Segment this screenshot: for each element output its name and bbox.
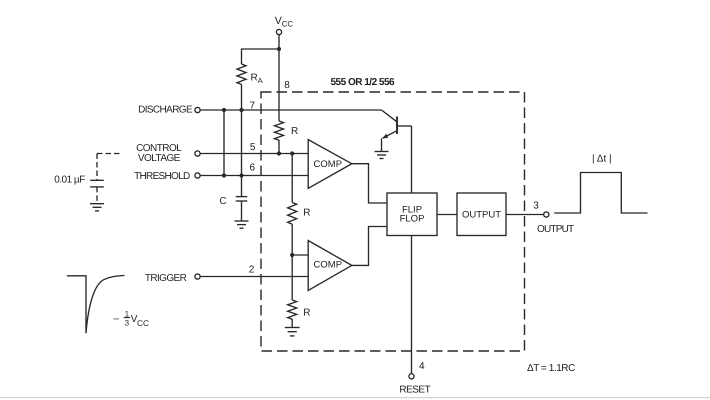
- wire R1 bottom to control voltage node: [278, 140, 280, 154]
- output waveform: [554, 173, 647, 214]
- wire Vcc down: [278, 35, 280, 49]
- capacitor 0.01uF plates: [90, 180, 104, 187]
- comparator COMP2: [308, 241, 352, 291]
- wire output to pin3: [506, 214, 544, 216]
- svg-text:555 OR 1/2 556: 555 OR 1/2 556: [331, 77, 396, 88]
- svg-text:0.01 µF: 0.01 µF: [54, 174, 85, 185]
- svg-text:1: 1: [125, 309, 130, 318]
- svg-text:7: 7: [250, 101, 256, 112]
- node Vcc junction: [277, 47, 281, 51]
- svg-text:8: 8: [284, 80, 290, 91]
- fraction bar of 1/3: [124, 317, 130, 319]
- wire flip flop down to reset pin4: [411, 236, 413, 374]
- wire control voltage line pin5: [200, 153, 308, 155]
- svg-text:RESET: RESET: [399, 384, 430, 395]
- node junction threshold x241.5: [239, 173, 243, 177]
- svg-text:V: V: [275, 15, 282, 27]
- svg-text:DISCHARGE: DISCHARGE: [138, 104, 193, 115]
- wire trigger line pin2: [200, 276, 308, 278]
- wire R3 bottom to ground: [291, 319, 293, 328]
- ground under R3: [285, 328, 300, 336]
- wire RA bottom to discharge line: [241, 84, 243, 110]
- wire vertical x224 discharge to threshold: [223, 110, 225, 176]
- wire R2 bottom to comp2 node: [291, 224, 293, 255]
- wire Vcc to RA top: [242, 49, 280, 64]
- svg-text:OUTPUT: OUTPUT: [462, 210, 501, 221]
- node junction comp2 upper input: [290, 253, 294, 257]
- ground under 0.01uF: [90, 204, 104, 211]
- wire Q1 collector down to flip flop: [411, 126, 413, 193]
- svg-text:| Δt |: | Δt |: [592, 153, 612, 164]
- svg-text:CC: CC: [137, 318, 149, 328]
- capacitor C: [236, 197, 248, 221]
- svg-text:3: 3: [125, 319, 130, 328]
- svg-text:4: 4: [419, 361, 425, 372]
- label RA: [251, 73, 263, 85]
- svg-text:FLOP: FLOP: [400, 213, 425, 224]
- wire R chain x292 cv node down to R2: [291, 154, 293, 203]
- wire comp2 node down to R3: [291, 255, 293, 300]
- flip flop box U2: [387, 193, 437, 236]
- ground under C: [235, 221, 249, 228]
- ground under Q1: [375, 152, 389, 159]
- wire Vcc vertical into box to R1 top: [278, 49, 280, 121]
- node output terminal: [544, 212, 549, 217]
- svg-text:ΔT = 1.1RC: ΔT = 1.1RC: [527, 363, 575, 374]
- node junction discharge x224: [222, 108, 226, 112]
- node threshold terminal: [195, 173, 200, 178]
- wire comp1 output to flip flop: [352, 164, 387, 203]
- node junction discharge x241.5: [239, 108, 243, 112]
- resistor RA: [237, 64, 246, 84]
- svg-text:A: A: [258, 76, 263, 85]
- svg-text:R: R: [303, 208, 310, 219]
- svg-text:3: 3: [533, 200, 539, 211]
- node reset terminal: [409, 374, 414, 379]
- resistor R1: [275, 121, 284, 140]
- svg-text:TRIGGER: TRIGGER: [145, 273, 187, 284]
- wire flip flop to output: [437, 214, 457, 216]
- wire threshold line pin6: [200, 175, 308, 177]
- node junction threshold x224: [222, 173, 226, 177]
- svg-text:R: R: [291, 126, 298, 137]
- transistor Q1: [382, 110, 412, 151]
- node Vcc terminal: [276, 29, 281, 34]
- label Vcc: [275, 15, 294, 28]
- label -1/3 Vcc: [114, 309, 149, 327]
- svg-text:2: 2: [249, 264, 255, 275]
- trigger waveform: [67, 276, 125, 334]
- svg-text:VOLTAGE: VOLTAGE: [138, 153, 181, 164]
- wire comp2 upper input: [292, 254, 308, 256]
- wire discharge line pin7: [200, 109, 381, 111]
- node control voltage terminal: [195, 151, 200, 156]
- wire vertical x241.5 discharge to cap C: [241, 110, 243, 197]
- svg-text:6: 6: [250, 163, 256, 174]
- resistor R2: [288, 203, 297, 225]
- svg-text:R: R: [303, 307, 310, 318]
- dashed box 555: [261, 92, 525, 351]
- capacitor bypass 0.01uF dashed leads: [97, 154, 123, 204]
- node junction cv R1: [277, 151, 281, 155]
- node trigger terminal: [195, 274, 200, 279]
- output box U3: [457, 193, 506, 236]
- svg-text:CC: CC: [282, 19, 294, 28]
- node junction cv R2: [290, 151, 294, 155]
- artifact bottom gray line: [0, 397, 710, 399]
- svg-text:COMP: COMP: [314, 159, 343, 170]
- svg-text:–: –: [114, 313, 120, 324]
- node discharge terminal: [195, 107, 200, 112]
- svg-text:C: C: [219, 196, 226, 207]
- svg-text:THRESHOLD: THRESHOLD: [134, 171, 190, 182]
- svg-text:5: 5: [250, 142, 256, 153]
- svg-text:COMP: COMP: [314, 260, 343, 271]
- wire comp2 output to flip flop: [352, 227, 387, 266]
- comparator COMP1: [308, 140, 352, 189]
- resistor R3: [288, 300, 297, 319]
- svg-text:OUTPUT: OUTPUT: [537, 224, 574, 235]
